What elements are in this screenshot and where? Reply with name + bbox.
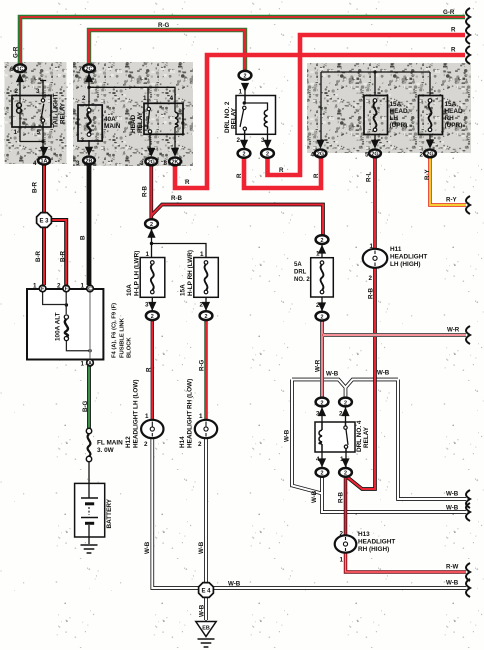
svg-text:3: 3 (145, 302, 149, 309)
svg-text:6: 6 (10, 66, 14, 73)
svg-text:DRL: DRL (294, 270, 307, 276)
svg-text:E 4: E 4 (201, 589, 211, 595)
svg-text:1: 1 (316, 251, 320, 258)
svg-text:2: 2 (205, 314, 208, 320)
svg-text:15A: 15A (445, 101, 457, 108)
svg-text:3: 3 (316, 411, 320, 418)
svg-text:1: 1 (146, 251, 150, 258)
svg-text:7: 7 (79, 66, 83, 73)
svg-text:H-LP LH (LWR): H-LP LH (LWR) (134, 251, 141, 296)
svg-text:W-R: W-R (447, 327, 460, 334)
svg-text:DRL NO. 4: DRL NO. 4 (356, 420, 363, 452)
svg-text:2: 2 (82, 95, 86, 102)
svg-text:HEAD: HEAD (445, 108, 463, 115)
svg-text:2G: 2G (426, 152, 433, 158)
svg-text:3: 3 (140, 160, 144, 167)
svg-text:HEADLIGHT: HEADLIGHT (358, 539, 395, 546)
svg-text:F4 (A), F6 (C), F9 (F): F4 (A), F6 (C), F9 (F) (112, 303, 118, 358)
svg-text:10A: 10A (126, 284, 133, 296)
svg-text:2: 2 (144, 441, 148, 448)
svg-text:1: 1 (200, 251, 204, 258)
svg-text:2: 2 (151, 314, 154, 320)
svg-text:R: R (185, 179, 190, 186)
svg-text:2: 2 (237, 137, 241, 144)
svg-text:W-B: W-B (144, 541, 151, 554)
svg-text:HEADLIGHT: HEADLIGHT (390, 254, 427, 261)
svg-text:1: 1 (145, 413, 149, 420)
svg-text:TAIL LIGHT: TAIL LIGHT (53, 93, 60, 128)
svg-text:H13: H13 (358, 531, 370, 538)
svg-text:B-G: B-G (82, 400, 89, 412)
svg-text:2: 2 (200, 302, 204, 309)
svg-text:BLOCK: BLOCK (127, 337, 133, 358)
svg-text:C: C (88, 287, 92, 293)
svg-text:H11: H11 (390, 246, 402, 253)
svg-text:R-Y: R-Y (424, 168, 431, 180)
svg-text:2G: 2G (317, 152, 324, 158)
svg-text:4: 4 (311, 152, 315, 159)
svg-text:R: R (313, 173, 320, 178)
svg-text:R: R (146, 367, 153, 372)
svg-text:2: 2 (198, 441, 202, 448)
svg-text:W-B: W-B (199, 604, 206, 617)
svg-text:4: 4 (316, 456, 320, 463)
svg-text:HEAD: HEAD (130, 115, 137, 133)
svg-text:B: B (80, 235, 87, 240)
svg-text:3: 3 (261, 137, 265, 144)
svg-text:1: 1 (340, 456, 344, 463)
svg-text:2: 2 (150, 222, 153, 228)
svg-text:R-B: R-B (171, 195, 183, 202)
svg-text:RELAY: RELAY (137, 111, 144, 133)
svg-text:2G: 2G (371, 152, 378, 158)
svg-text:HEADLIGHT LH (LOW): HEADLIGHT LH (LOW) (133, 379, 140, 448)
svg-text:W-B: W-B (446, 580, 459, 587)
svg-text:W-B: W-B (311, 490, 318, 503)
svg-text:2: 2 (321, 471, 324, 477)
svg-text:5A: 5A (294, 262, 302, 268)
svg-text:1C: 1C (17, 66, 24, 72)
svg-text:RH (HIGH): RH (HIGH) (358, 546, 389, 553)
svg-text:5: 5 (37, 129, 41, 136)
svg-text:1: 1 (143, 95, 147, 102)
svg-text:(UPR): (UPR) (445, 122, 463, 129)
svg-text:2C: 2C (86, 66, 93, 72)
svg-text:H-LP RH (LWR): H-LP RH (LWR) (187, 250, 194, 296)
svg-text:2: 2 (57, 283, 61, 290)
svg-text:2: 2 (344, 400, 347, 406)
svg-text:15A: 15A (180, 284, 187, 296)
svg-text:2: 2 (243, 152, 246, 158)
svg-text:3: 3 (36, 88, 40, 95)
svg-text:R-G: R-G (199, 359, 206, 371)
svg-text:LH: LH (390, 115, 399, 122)
svg-text:2: 2 (321, 315, 324, 321)
svg-text:R-B: R-B (338, 491, 345, 503)
svg-text:1: 1 (370, 243, 374, 250)
svg-text:W-B: W-B (377, 370, 390, 377)
svg-text:2: 2 (15, 88, 19, 95)
svg-text:FUSIBLE LINK: FUSIBLE LINK (120, 317, 126, 358)
svg-text:3: 3 (81, 137, 85, 144)
svg-text:2: 2 (321, 238, 324, 244)
svg-text:8: 8 (164, 160, 168, 167)
svg-text:2: 2 (266, 152, 269, 158)
svg-text:H12: H12 (125, 436, 132, 448)
svg-text:B-R: B-R (32, 181, 39, 193)
svg-text:R-W: R-W (446, 564, 459, 571)
svg-text:4: 4 (33, 160, 37, 167)
svg-text:1: 1 (81, 283, 85, 290)
svg-text:1: 1 (239, 89, 243, 96)
svg-text:W-R: W-R (315, 359, 322, 372)
svg-text:2: 2 (339, 411, 343, 418)
svg-text:HEAD: HEAD (390, 108, 408, 115)
svg-text:2G: 2G (148, 160, 155, 166)
svg-text:A: A (88, 361, 92, 367)
svg-text:R: R (279, 167, 284, 174)
svg-text:F: F (65, 287, 68, 293)
svg-text:40A: 40A (104, 116, 116, 123)
svg-text:2: 2 (369, 275, 373, 282)
svg-text:1: 1 (33, 283, 37, 290)
svg-text:EB: EB (202, 626, 210, 632)
svg-text:R: R (451, 47, 456, 54)
svg-text:W-B: W-B (446, 505, 459, 512)
svg-text:R: R (451, 27, 456, 34)
svg-text:HEADLIGHT RH (LOW): HEADLIGHT RH (LOW) (187, 379, 194, 448)
svg-text:(UPR): (UPR) (390, 122, 408, 129)
svg-text:2: 2 (321, 400, 324, 406)
svg-text:2: 2 (344, 471, 347, 477)
svg-text:NO. 2: NO. 2 (294, 277, 310, 283)
svg-text:2: 2 (340, 531, 344, 538)
svg-text:W-B: W-B (284, 429, 291, 442)
svg-text:1: 1 (14, 129, 18, 136)
svg-text:MAIN: MAIN (104, 123, 121, 130)
svg-text:2K: 2K (172, 160, 179, 166)
svg-text:R-Y: R-Y (446, 197, 458, 204)
svg-text:RH: RH (445, 115, 455, 122)
svg-text:RELAY: RELAY (363, 426, 370, 448)
svg-text:R-B: R-B (142, 185, 149, 197)
svg-text:W-B: W-B (326, 371, 339, 378)
svg-text:3. 0W: 3. 0W (97, 447, 115, 454)
svg-text:1: 1 (340, 557, 344, 564)
svg-text:2: 2 (244, 74, 247, 80)
svg-text:B-R: B-R (35, 250, 42, 262)
svg-text:4: 4 (170, 95, 174, 102)
svg-text:W-B: W-B (446, 491, 459, 498)
svg-text:W-B: W-B (198, 541, 205, 554)
svg-text:E 3: E 3 (39, 219, 49, 225)
svg-text:R-L: R-L (366, 171, 373, 182)
svg-text:R-G: R-G (158, 22, 170, 29)
svg-text:1: 1 (81, 361, 85, 368)
svg-text:R-B: R-B (368, 287, 375, 299)
svg-text:2B: 2B (86, 159, 93, 165)
svg-text:1: 1 (199, 413, 203, 420)
svg-text:B-R: B-R (60, 250, 67, 262)
svg-text:F: F (41, 287, 44, 293)
svg-text:FL MAIN: FL MAIN (97, 440, 123, 447)
svg-text:RELAY: RELAY (60, 102, 67, 124)
svg-text:100A ALT: 100A ALT (55, 312, 62, 341)
svg-text:2: 2 (316, 302, 320, 309)
svg-text:G-R: G-R (443, 9, 455, 16)
svg-text:2: 2 (420, 152, 424, 159)
svg-text:3: 3 (76, 160, 80, 167)
svg-text:RELAY: RELAY (231, 107, 238, 129)
svg-text:15A: 15A (390, 101, 402, 108)
svg-text:G-R: G-R (13, 46, 20, 58)
svg-text:H14: H14 (179, 436, 186, 448)
svg-text:R: R (236, 173, 243, 178)
svg-text:1A: 1A (41, 159, 48, 165)
svg-text:W-B: W-B (228, 581, 241, 588)
svg-text:BATTERY: BATTERY (106, 498, 113, 528)
svg-text:LH (HIGH): LH (HIGH) (390, 261, 421, 268)
svg-text:5: 5 (365, 152, 369, 159)
